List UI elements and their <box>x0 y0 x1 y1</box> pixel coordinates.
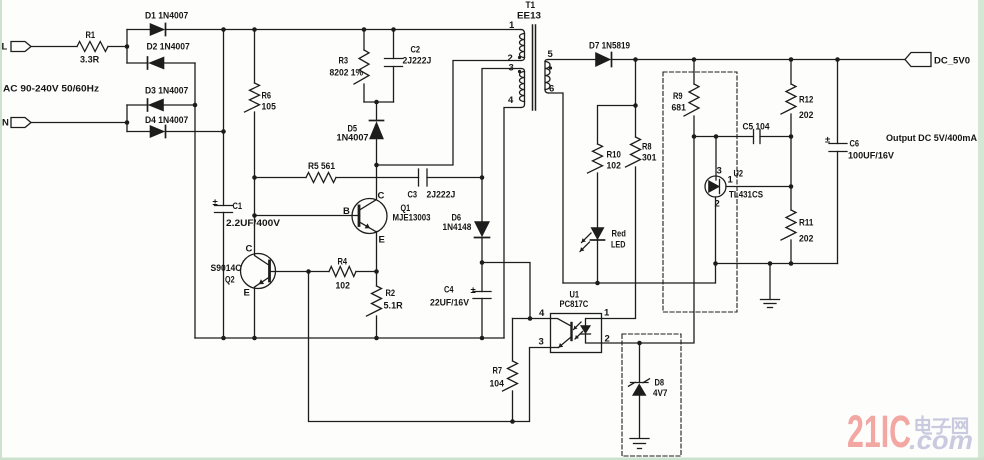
wire C4 leads <box>481 263 483 339</box>
wire Q1 collector <box>376 165 378 199</box>
wire T1 pin3 to aux circuit <box>482 69 521 178</box>
optocoupler U1 PC817C <box>551 290 602 353</box>
node C1 bottom junction <box>221 336 226 341</box>
node Q2 emitter / B- rail junction <box>252 336 257 341</box>
wire B+ vertical to C1 <box>223 30 225 206</box>
ground symbol (output) <box>761 264 780 308</box>
node R7 / emitter return junction <box>510 419 515 424</box>
resistor R10 102 <box>588 144 621 173</box>
wire R7 bottom lead <box>512 391 514 422</box>
svg-text:±: ± <box>825 135 830 146</box>
node rail / R8-R10 branch <box>633 57 638 62</box>
node D6 / C4 / opto branch <box>480 260 485 265</box>
svg-text:L: L <box>2 42 8 53</box>
svg-text:21IC: 21IC <box>847 406 911 457</box>
wire TL431 anode to ground rail <box>715 197 717 264</box>
wire N terminal to bridge <box>31 122 127 124</box>
node D4 cathode / B+ vertical <box>221 129 226 134</box>
LED red indicator <box>580 228 626 252</box>
node R6/R5/Q2-collector junction <box>252 175 257 180</box>
wire B+ top rail <box>166 29 522 31</box>
svg-text:Q2: Q2 <box>225 275 235 286</box>
node TL431 ref tee <box>714 134 719 139</box>
diode D6 1N4148 <box>443 213 490 238</box>
wire R6 leads <box>254 30 256 178</box>
svg-text:4V7: 4V7 <box>653 388 667 399</box>
svg-text:100UF/16V: 100UF/16V <box>848 151 895 162</box>
wire bridge left vertical D1-D2 <box>126 30 128 64</box>
resistor R4 102 <box>329 257 356 292</box>
svg-text:R1: R1 <box>86 30 96 41</box>
svg-text:S9014C: S9014C <box>211 263 242 274</box>
wire R3 leads <box>363 30 365 103</box>
diode D3 1N4007 <box>127 86 195 112</box>
watermark 电子网 glyphs <box>917 417 968 434</box>
wire R1 to bridge node <box>108 46 127 48</box>
svg-text:4: 4 <box>508 95 514 106</box>
wire R9 bottom to opto pin2 net <box>640 116 695 343</box>
svg-text:D1 1N4007: D1 1N4007 <box>145 11 188 22</box>
node R9 / TL431 ref junction <box>692 134 697 139</box>
node opto pin4 junction <box>528 316 533 321</box>
svg-text:U2: U2 <box>734 169 744 180</box>
svg-text:R12: R12 <box>799 95 813 106</box>
transistor Q2 S9014C <box>211 244 276 299</box>
svg-text:DC_5V0: DC_5V0 <box>934 56 970 67</box>
svg-text:3: 3 <box>717 166 722 177</box>
svg-text:C5 104: C5 104 <box>743 122 771 133</box>
node C2 top rail junction <box>391 27 396 32</box>
wire R5 to C3 <box>336 177 419 179</box>
svg-text:2J222J: 2J222J <box>427 190 456 201</box>
wire D8 top lead <box>639 343 641 383</box>
svg-text:681: 681 <box>672 103 687 114</box>
resistor R5 561 <box>306 161 336 183</box>
wire LED cathode to ground rail <box>597 239 599 283</box>
dashed feedback box <box>663 72 737 312</box>
svg-text:2.2UF/400V: 2.2UF/400V <box>226 218 281 229</box>
diode D5 1N4007 (snubber) <box>337 121 384 144</box>
wire R4 left lead <box>309 271 330 273</box>
svg-text:N: N <box>2 118 9 129</box>
diode D2 1N4007 <box>127 42 195 70</box>
wire T1 pin5 to D7 <box>549 59 596 61</box>
node opto pin2 / D8 junction <box>637 341 642 346</box>
wire R2 leads <box>376 272 378 339</box>
node snubber / D5 junction <box>374 100 379 105</box>
resistor R11 202 <box>781 210 814 245</box>
svg-text:R11: R11 <box>799 218 814 229</box>
svg-text:202: 202 <box>799 110 813 121</box>
diode D1 1N4007 <box>127 11 188 36</box>
svg-text:Red: Red <box>612 229 627 240</box>
svg-text:±: ± <box>471 285 476 296</box>
svg-text:1: 1 <box>604 308 610 319</box>
svg-text:3: 3 <box>539 337 544 348</box>
capacitor C4 22UF/16V <box>430 285 491 309</box>
node R4 / opto return junction <box>306 269 311 274</box>
wire R8 top lead <box>635 60 637 138</box>
wire C3 to aux winding node <box>427 177 482 179</box>
wire L terminal to R1 <box>31 46 77 48</box>
wire R10 to LED <box>597 173 599 228</box>
capacitor C5 104 <box>743 122 771 144</box>
wire TL431 cathode to divider <box>726 186 791 188</box>
node R3 top rail junction <box>362 27 367 32</box>
svg-text:C1: C1 <box>233 201 243 212</box>
node N/bridge junction <box>125 120 130 125</box>
svg-text:C3: C3 <box>408 190 418 201</box>
svg-text:C: C <box>378 191 385 202</box>
wire C5 to R12/R11 <box>760 136 791 138</box>
diode D4 1N4007 <box>127 115 224 138</box>
wire C6 top lead <box>837 60 839 144</box>
capacitor C3 2J222J <box>408 169 456 201</box>
resistor R12 202 <box>781 84 813 121</box>
wire D6 leads <box>481 178 483 263</box>
wire +5V output rail <box>612 59 906 61</box>
wire R12 leads <box>790 60 792 211</box>
node C3 / pin3 vertical junction <box>480 175 485 180</box>
capacitor C1 2.2UF/400V <box>213 197 281 229</box>
svg-text:R10: R10 <box>607 150 621 161</box>
svg-text:C6: C6 <box>850 139 860 150</box>
svg-text:R3: R3 <box>339 56 349 67</box>
wire Q2 collector <box>254 178 256 255</box>
svg-text:.com: .com <box>909 425 973 455</box>
svg-text:8202 1%: 8202 1% <box>330 68 364 79</box>
wire opto pin4 <box>513 318 551 320</box>
terminal DC_5V0 output <box>905 53 970 67</box>
node R2 bottom / B- rail junction <box>374 336 379 341</box>
svg-text:E: E <box>379 235 385 246</box>
svg-text:R5 561: R5 561 <box>308 161 336 172</box>
svg-text:±: ± <box>213 197 218 208</box>
wire R5 left lead <box>255 177 307 179</box>
resistor R3 8202 1% <box>330 50 370 84</box>
svg-text:104: 104 <box>490 379 505 390</box>
wire B- bridge vertical <box>194 63 196 338</box>
wire R8 to opto pin1 <box>602 167 636 319</box>
diode D8 4V7 (zener) <box>629 378 668 400</box>
wire ref node to C5 <box>694 136 754 138</box>
wire aux supply to opto collector <box>482 263 530 319</box>
svg-text:1N4007: 1N4007 <box>337 133 369 144</box>
resistor R8 301 <box>626 137 658 167</box>
node top rail / R6 branch <box>252 27 257 32</box>
wire Q1 base <box>255 215 360 217</box>
svg-text:1: 1 <box>728 175 734 186</box>
svg-text:T1: T1 <box>526 0 536 11</box>
node rail / R12 branch <box>789 57 794 62</box>
diode D7 1N5819 <box>589 41 630 67</box>
wire T1 pin4 to B- rail <box>504 108 521 339</box>
svg-text:5: 5 <box>548 49 554 60</box>
node TL431 cathode junction <box>789 184 794 189</box>
node Q1 emitter / R4 / R2 junction <box>374 269 379 274</box>
node C4 bottom junction <box>480 336 485 341</box>
resistor R9 681 <box>672 84 700 116</box>
svg-text:LED: LED <box>611 240 626 251</box>
terminal L (AC line input) <box>2 42 32 53</box>
svg-text:3.3R: 3.3R <box>80 55 99 66</box>
node R8 / R10 branch junction <box>633 103 638 108</box>
wire snubber return to T1 pin2 <box>377 61 522 166</box>
node top rail / bulk cap branch <box>221 27 226 32</box>
node LED / ground rail junction <box>595 281 600 286</box>
wire bridge left vertical D3-D4 <box>126 105 128 132</box>
wire Q2 emitter <box>254 288 256 339</box>
wire R10 top feed <box>598 106 636 145</box>
ground symbol (zener) <box>630 439 649 449</box>
svg-text:5.1R: 5.1R <box>384 301 403 312</box>
wire R11 bottom lead <box>790 240 792 264</box>
wire R4 right lead <box>356 271 377 273</box>
node TL431 anode / rail jog <box>713 261 718 266</box>
svg-text:PC817C: PC817C <box>560 299 589 310</box>
svg-text:TL431CS: TL431CS <box>729 190 763 201</box>
svg-text:R8: R8 <box>642 142 652 153</box>
wire C6 bottom lead <box>837 152 839 264</box>
svg-text:EE13: EE13 <box>517 11 541 22</box>
svg-text:R4: R4 <box>338 257 348 268</box>
svg-text:301: 301 <box>642 153 657 164</box>
wire opto pin2 <box>602 342 640 344</box>
node L/bridge junction <box>125 44 130 49</box>
svg-text:D4 1N4007: D4 1N4007 <box>145 115 188 126</box>
capacitor C2 2J222J <box>385 45 432 67</box>
svg-text:MJE13003: MJE13003 <box>393 213 431 224</box>
svg-text:D7 1N5819: D7 1N5819 <box>589 41 630 52</box>
svg-text:R6: R6 <box>262 91 272 102</box>
node Q1 base / Q2 collector tee <box>252 213 257 218</box>
svg-text:4: 4 <box>539 308 545 319</box>
svg-text:E: E <box>244 288 250 299</box>
svg-text:2J222J: 2J222J <box>403 56 432 67</box>
transformer T1 EE13 <box>517 0 552 110</box>
wire R9 top lead <box>693 60 695 85</box>
resistor R2 5.1R <box>367 286 403 316</box>
wire secondary ground rail <box>563 264 838 284</box>
wire D5 leads <box>376 102 378 165</box>
svg-text:R9: R9 <box>673 91 683 102</box>
wire B- bottom rail <box>195 337 504 339</box>
node rail / C6 branch <box>835 57 840 62</box>
resistor R7 104 <box>490 361 518 391</box>
svg-text:R2: R2 <box>386 288 396 299</box>
svg-text:102: 102 <box>336 281 350 292</box>
wire snubber bottom link <box>364 101 394 103</box>
node D5 / collector-return junction <box>374 163 379 168</box>
svg-text:1: 1 <box>509 20 515 31</box>
svg-text:22UF/16V: 22UF/16V <box>430 298 470 309</box>
svg-text:C4: C4 <box>444 285 454 296</box>
wire R7 top lead <box>512 319 514 362</box>
transistor Q1 MJE13003 <box>343 191 431 246</box>
wire C2 leads <box>393 30 395 103</box>
node ground stem junction <box>768 261 773 266</box>
terminal N (AC neutral input) <box>2 118 31 129</box>
svg-text:D2 1N4007: D2 1N4007 <box>147 42 190 53</box>
dashed zener box <box>622 334 681 456</box>
node C5 / R12 junction <box>789 134 794 139</box>
wire Q2 base <box>270 271 309 273</box>
node D3 anode / B- junction <box>193 103 198 108</box>
node rail / R9 branch <box>692 57 697 62</box>
wire Q1 emitter <box>376 232 378 272</box>
wire D8 to ground <box>639 396 641 439</box>
wire TL431 ref lead <box>715 137 717 181</box>
svg-text:102: 102 <box>607 161 621 172</box>
capacitor C6 100UF/16V <box>825 135 895 162</box>
svg-text:R7: R7 <box>493 366 503 377</box>
svg-text:1N4148: 1N4148 <box>443 222 472 233</box>
wire C1 to B- rail <box>223 213 225 339</box>
svg-text:D3 1N4007: D3 1N4007 <box>145 86 188 97</box>
svg-text:C: C <box>246 244 253 255</box>
wire opto pin3 emitter return <box>309 272 551 422</box>
svg-text:D8: D8 <box>655 378 665 389</box>
svg-text:105: 105 <box>262 102 277 113</box>
op-amp U2 TL431CS (shunt regulator) <box>705 169 763 201</box>
svg-text:202: 202 <box>799 234 813 245</box>
resistor R1 3.3R <box>77 30 108 66</box>
resistor R6 105 <box>245 83 277 113</box>
svg-text:AC 90-240V 50/60Hz: AC 90-240V 50/60Hz <box>3 84 99 95</box>
node R11 / ground rail junction <box>789 261 794 266</box>
svg-text:Output DC 5V/400mA: Output DC 5V/400mA <box>886 133 977 144</box>
wire T1 pin6 to secondary ground <box>549 93 564 283</box>
svg-text:C2: C2 <box>411 45 421 56</box>
